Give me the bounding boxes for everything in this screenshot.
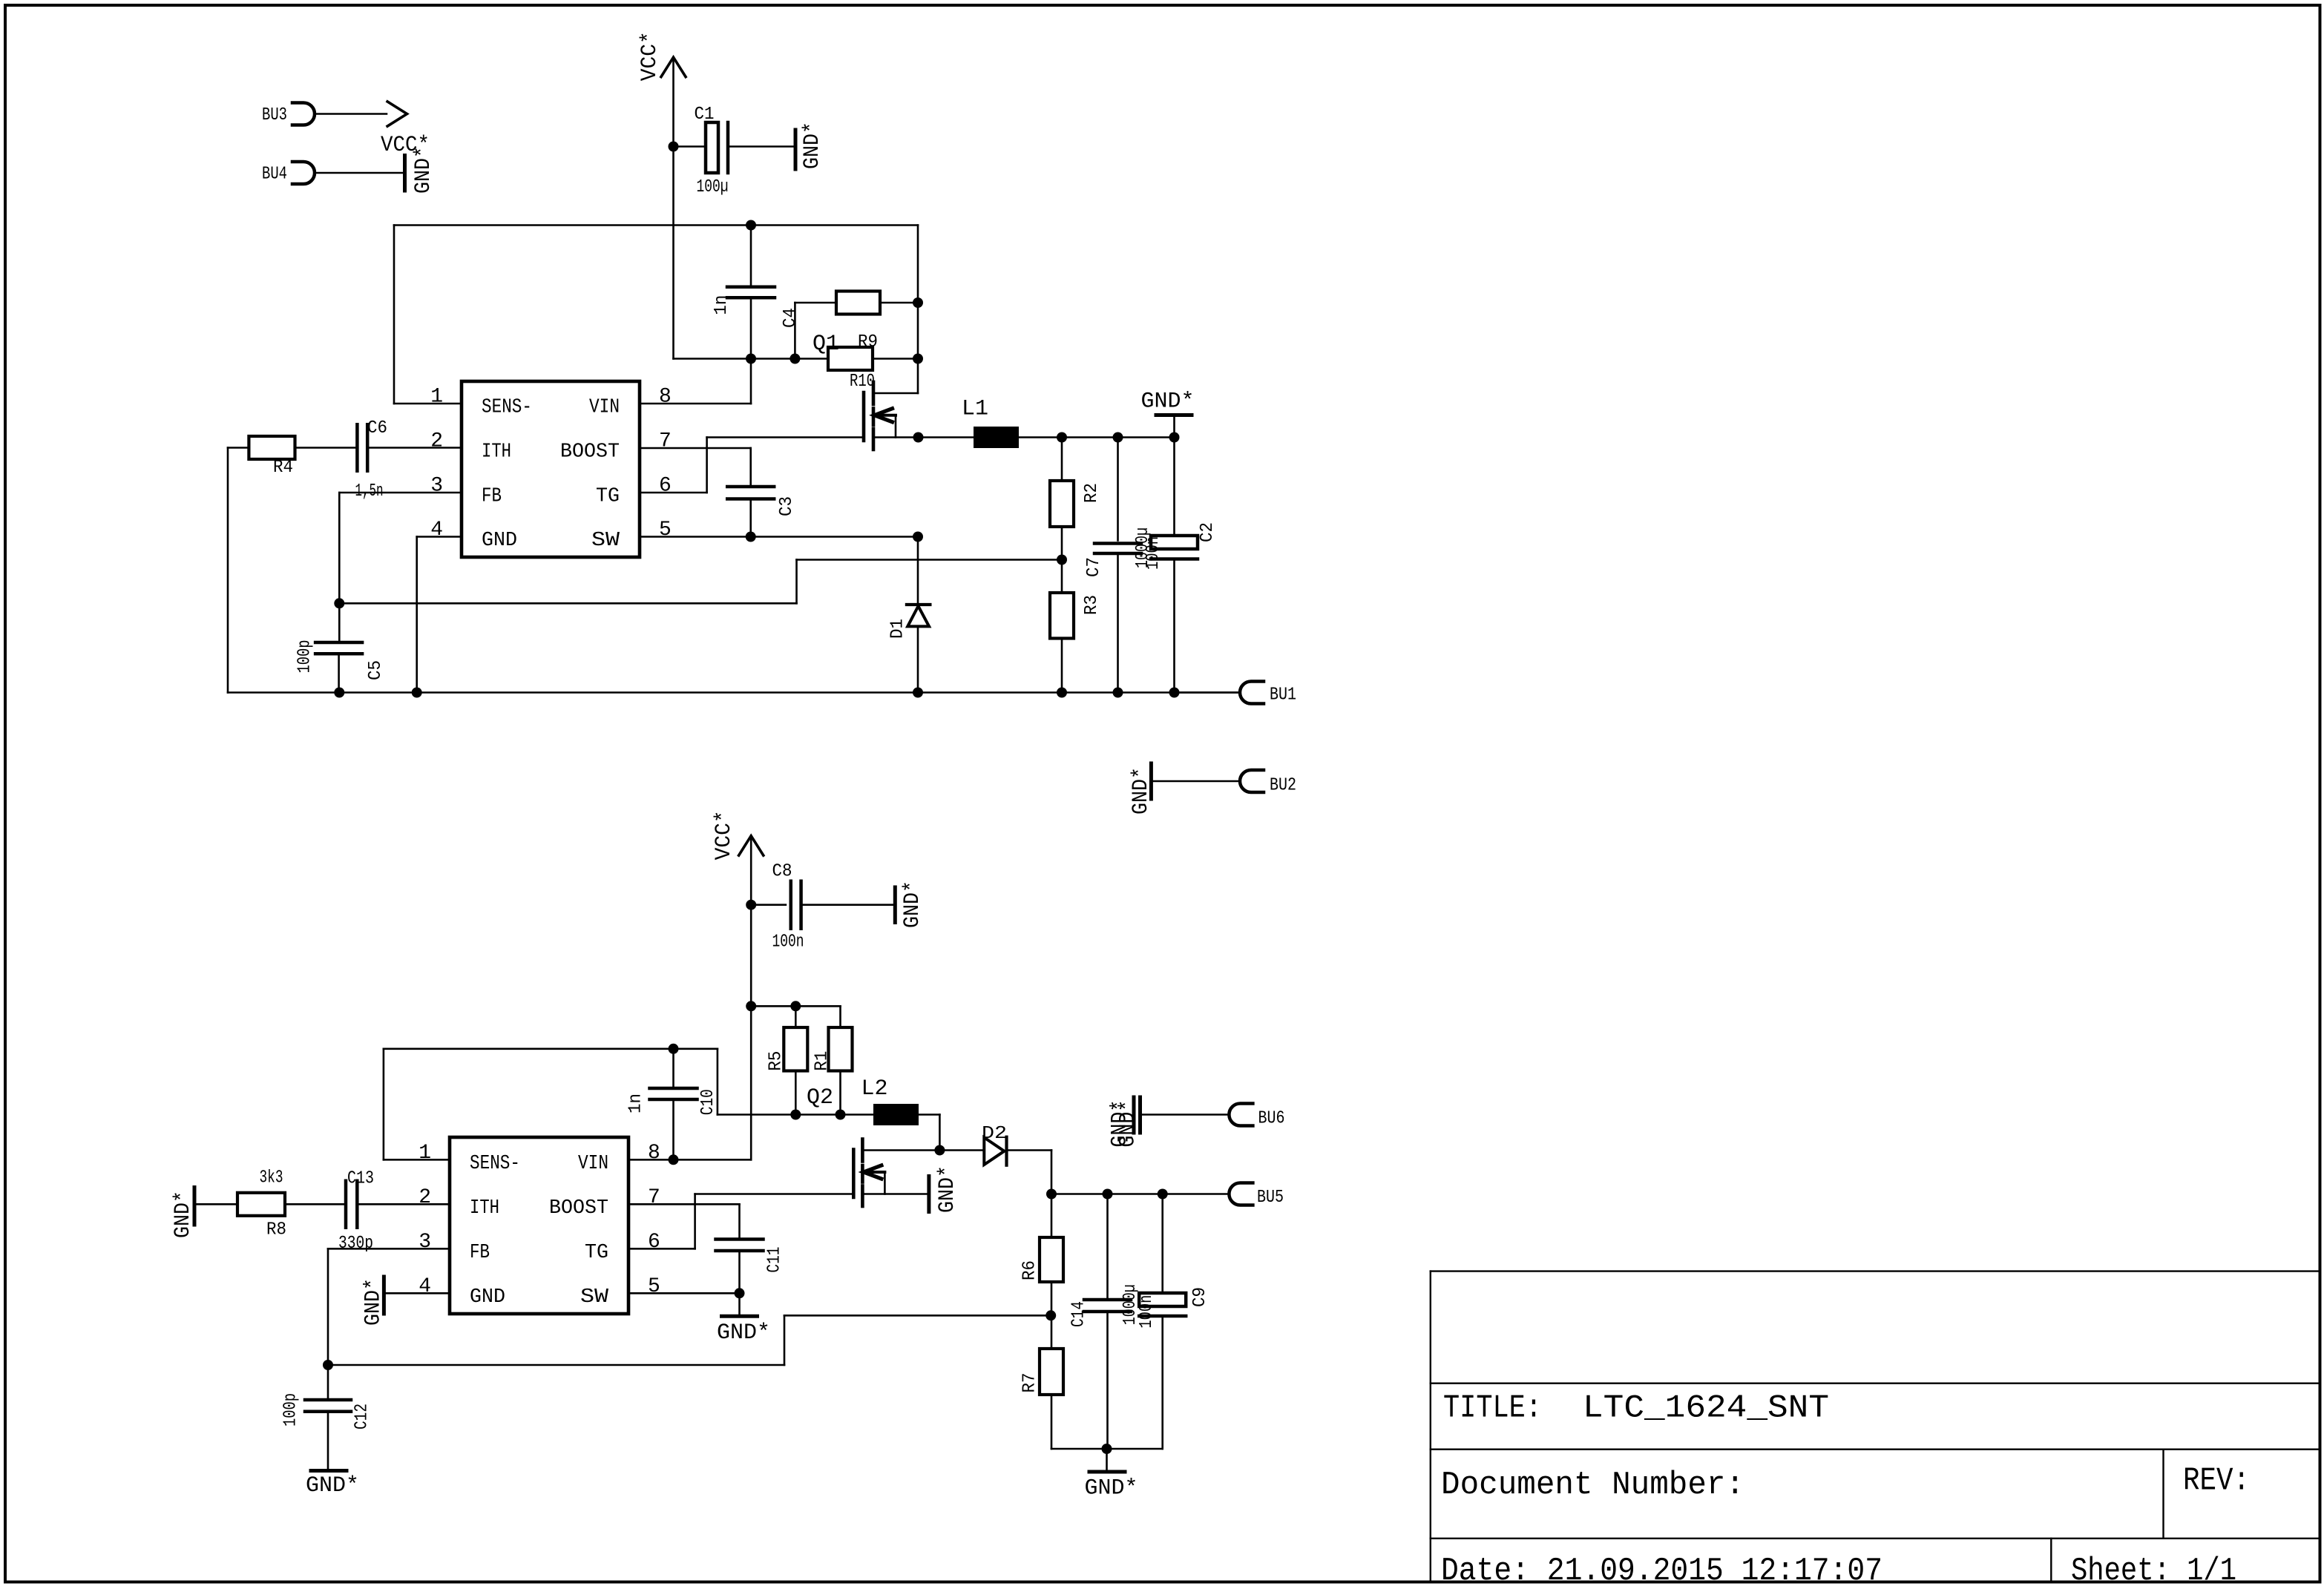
svg-text:Date: 21.09.2015 12:17:07: Date: 21.09.2015 12:17:07 xyxy=(1441,1553,1882,1589)
svg-text:100n: 100n xyxy=(1143,536,1163,570)
svg-text:GND*: GND* xyxy=(361,1278,387,1326)
svg-text:C11: C11 xyxy=(765,1247,785,1273)
svg-text:1n: 1n xyxy=(712,295,732,315)
svg-text:C10: C10 xyxy=(698,1089,718,1115)
svg-text:R8: R8 xyxy=(266,1220,286,1240)
svg-text:5: 5 xyxy=(648,1275,660,1298)
svg-text:BU6: BU6 xyxy=(1258,1108,1285,1128)
svg-text:C6: C6 xyxy=(367,418,387,438)
svg-text:100n: 100n xyxy=(1137,1295,1157,1329)
svg-text:3k3: 3k3 xyxy=(260,1168,283,1188)
svg-text:1: 1 xyxy=(418,1142,431,1165)
svg-text:C8: C8 xyxy=(772,862,792,882)
svg-text:GND*: GND* xyxy=(171,1191,196,1238)
svg-text:6: 6 xyxy=(659,475,672,498)
svg-text:D1: D1 xyxy=(888,619,908,639)
svg-text:1: 1 xyxy=(430,386,443,409)
svg-text:Sheet: 1/1: Sheet: 1/1 xyxy=(2071,1553,2236,1589)
svg-text:C3: C3 xyxy=(777,496,797,516)
svg-text:R3: R3 xyxy=(1082,595,1102,615)
svg-text:BOOST: BOOST xyxy=(560,441,620,464)
svg-text:BU4: BU4 xyxy=(262,165,287,185)
svg-text:100p: 100p xyxy=(295,640,315,674)
svg-text:GND*: GND* xyxy=(1085,1476,1138,1501)
svg-text:TITLE:: TITLE: xyxy=(1443,1389,1542,1427)
svg-text:R5: R5 xyxy=(767,1051,787,1071)
svg-text:4: 4 xyxy=(430,519,443,542)
svg-text:GND*: GND* xyxy=(306,1473,359,1498)
svg-text:GND*: GND* xyxy=(1129,767,1154,815)
svg-text:8: 8 xyxy=(659,386,672,409)
svg-text:SW: SW xyxy=(580,1286,609,1309)
svg-text:TG: TG xyxy=(596,486,620,508)
svg-text:2: 2 xyxy=(430,430,443,453)
svg-text:C14: C14 xyxy=(1069,1301,1089,1327)
svg-text:VCC*: VCC* xyxy=(637,31,663,81)
svg-text:GND*: GND* xyxy=(717,1320,770,1346)
svg-text:C5: C5 xyxy=(366,660,386,680)
svg-text:TG: TG xyxy=(585,1242,608,1264)
svg-text:GND*: GND* xyxy=(411,146,436,194)
svg-text:GND*: GND* xyxy=(900,881,925,928)
svg-text:R2: R2 xyxy=(1082,483,1102,503)
svg-text:SENS-: SENS- xyxy=(482,397,532,419)
svg-text:SENS-: SENS- xyxy=(470,1153,520,1175)
svg-text:FB: FB xyxy=(470,1242,490,1264)
svg-text:7: 7 xyxy=(659,430,672,453)
svg-text:GND*: GND* xyxy=(1141,389,1195,415)
svg-text:Q1: Q1 xyxy=(813,332,839,357)
svg-text:R1: R1 xyxy=(813,1051,833,1071)
svg-text:ITH: ITH xyxy=(470,1197,499,1220)
svg-text:Q2: Q2 xyxy=(807,1085,833,1111)
svg-text:3: 3 xyxy=(430,475,443,498)
svg-text:GND*: GND* xyxy=(800,122,825,169)
svg-text:L1: L1 xyxy=(962,397,988,422)
svg-text:L2: L2 xyxy=(861,1076,888,1102)
svg-text:7: 7 xyxy=(648,1186,660,1209)
svg-text:SW: SW xyxy=(591,530,620,552)
svg-text:5: 5 xyxy=(659,519,672,542)
svg-text:D2: D2 xyxy=(982,1124,1007,1144)
svg-text:GND*: GND* xyxy=(1116,1100,1141,1148)
svg-text:BU3: BU3 xyxy=(262,105,287,125)
svg-text:R7: R7 xyxy=(1020,1373,1040,1393)
svg-text:REV:: REV: xyxy=(2183,1463,2250,1500)
svg-text:GND: GND xyxy=(470,1286,505,1309)
svg-text:3: 3 xyxy=(418,1231,431,1254)
svg-text:BOOST: BOOST xyxy=(549,1197,608,1220)
svg-text:GND: GND xyxy=(482,530,517,552)
svg-text:R6: R6 xyxy=(1020,1260,1040,1280)
svg-text:C9: C9 xyxy=(1190,1287,1210,1307)
svg-text:C4: C4 xyxy=(781,308,801,328)
svg-text:BU5: BU5 xyxy=(1257,1188,1284,1208)
svg-text:100µ: 100µ xyxy=(697,177,729,197)
svg-text:2: 2 xyxy=(418,1186,431,1209)
svg-text:6: 6 xyxy=(648,1231,660,1254)
svg-text:FB: FB xyxy=(482,486,502,508)
svg-text:C12: C12 xyxy=(352,1404,372,1430)
svg-text:C2: C2 xyxy=(1198,522,1218,542)
svg-text:4: 4 xyxy=(418,1275,431,1298)
svg-text:C1: C1 xyxy=(695,105,715,125)
svg-text:100p: 100p xyxy=(280,1393,301,1427)
svg-text:R10: R10 xyxy=(850,372,875,392)
svg-text:8: 8 xyxy=(648,1142,660,1165)
svg-text:330p: 330p xyxy=(338,1234,373,1254)
svg-text:VCC*: VCC* xyxy=(712,810,737,860)
svg-text:100n: 100n xyxy=(772,932,804,952)
svg-text:GND*: GND* xyxy=(935,1165,960,1213)
svg-text:VIN: VIN xyxy=(578,1153,608,1175)
svg-text:1n: 1n xyxy=(626,1093,646,1113)
svg-text:R9: R9 xyxy=(858,332,878,352)
svg-text:C13: C13 xyxy=(347,1169,374,1189)
svg-text:BU2: BU2 xyxy=(1270,776,1296,796)
svg-text:BU1: BU1 xyxy=(1270,685,1296,705)
svg-text:LTC_1624_SNT: LTC_1624_SNT xyxy=(1583,1389,1829,1427)
svg-text:R4: R4 xyxy=(273,458,293,478)
svg-text:VIN: VIN xyxy=(589,397,620,419)
svg-text:Document Number:: Document Number: xyxy=(1441,1467,1744,1504)
svg-text:ITH: ITH xyxy=(482,441,511,464)
svg-text:1,5n: 1,5n xyxy=(355,481,384,501)
svg-text:C7: C7 xyxy=(1084,557,1104,577)
